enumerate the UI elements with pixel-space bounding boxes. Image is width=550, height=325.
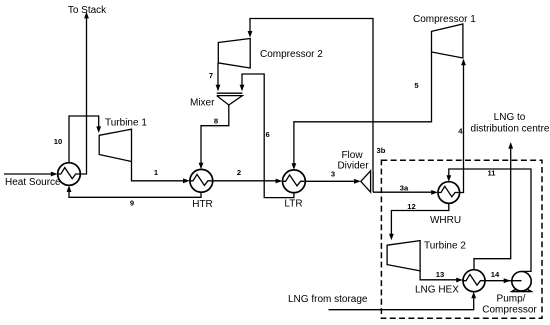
- heat exchanger LNG HEX: [463, 270, 485, 292]
- svg-text:4: 4: [458, 127, 463, 136]
- turbine T2: [387, 241, 420, 271]
- svg-text:11: 11: [487, 169, 496, 178]
- svg-text:LNG from storage: LNG from storage: [288, 294, 368, 305]
- wire 3a: divider to WHRU: [373, 190, 438, 195]
- wire 1: turbine 1 to HTR: [132, 162, 190, 184]
- svg-text:1: 1: [154, 168, 159, 177]
- svg-text:3: 3: [331, 170, 335, 179]
- wire 3b: divider to compressor 2: [248, 19, 373, 171]
- wire: LNG from storage: [329, 292, 477, 310]
- svg-text:Heat Source: Heat Source: [5, 177, 61, 188]
- compressor C1: [432, 24, 463, 58]
- svg-text:14: 14: [491, 270, 500, 279]
- svg-text:12: 12: [407, 202, 415, 211]
- wire 2: HTR to LTR: [213, 179, 283, 184]
- svg-text:Compressor 2: Compressor 2: [260, 49, 323, 60]
- wire: LNG to distribution centre: [474, 142, 513, 270]
- pump / compressor: [512, 272, 532, 292]
- svg-text:distribution centre: distribution centre: [471, 124, 550, 135]
- heat exchanger: heat source HX: [58, 163, 81, 186]
- turbine T1: [99, 129, 131, 161]
- svg-text:7: 7: [209, 71, 213, 80]
- wire 9: HTR to heat source HX: [67, 185, 201, 197]
- wire 4: WHRU to compressor 1: [460, 59, 466, 193]
- wire 12: WHRU to turbine 2: [389, 203, 449, 240]
- wire 13: turbine 2 to LNG HEX: [420, 271, 463, 283]
- svg-text:2: 2: [237, 168, 241, 177]
- compressor C2: [218, 39, 250, 69]
- svg-text:Compressor 1: Compressor 1: [413, 14, 476, 25]
- svg-text:WHRU: WHRU: [430, 215, 461, 226]
- flow divider: [361, 171, 373, 192]
- svg-text:6: 6: [266, 130, 270, 139]
- wire: to stack: [80, 12, 89, 174]
- svg-text:3a: 3a: [400, 184, 409, 193]
- svg-text:Turbine 1: Turbine 1: [105, 118, 147, 129]
- wire 8: mixer to HTR top: [199, 105, 229, 169]
- svg-text:3b: 3b: [377, 146, 386, 155]
- svg-text:13: 13: [436, 270, 444, 279]
- wire: heat source inlet arrow: [4, 172, 58, 177]
- svg-text:Pump/: Pump/: [497, 293, 526, 304]
- svg-text:To Stack: To Stack: [68, 5, 107, 16]
- svg-text:LNG to: LNG to: [494, 112, 526, 123]
- wire 7: compressor 2 to mixer: [216, 63, 221, 91]
- wire 6: LTR bottom to mixer: [240, 74, 294, 198]
- heat exchanger HTR: [190, 169, 213, 192]
- dashed system boundary box: [381, 160, 542, 318]
- svg-text:10: 10: [54, 137, 62, 146]
- heat exchanger WHRU: [438, 182, 460, 204]
- svg-text:LTR: LTR: [284, 199, 302, 210]
- svg-text:5: 5: [414, 81, 419, 90]
- heat exchanger LTR: [282, 170, 305, 193]
- svg-text:Mixer: Mixer: [190, 98, 215, 109]
- svg-text:HTR: HTR: [192, 199, 213, 210]
- svg-text:9: 9: [130, 199, 134, 208]
- wire 5: compressor 1 to LTR top: [292, 52, 432, 170]
- svg-text:Divider: Divider: [337, 161, 369, 172]
- wire 10: HX to turbine 1: [69, 116, 101, 163]
- svg-text:Turbine 2: Turbine 2: [424, 241, 466, 252]
- wire 14: LNG HEX to pump: [485, 278, 522, 283]
- svg-text:8: 8: [214, 117, 218, 126]
- wire 11: pump to WHRU: [446, 169, 531, 271]
- svg-text:Compressor: Compressor: [482, 304, 537, 315]
- svg-text:LNG HEX: LNG HEX: [415, 285, 459, 296]
- svg-text:Flow: Flow: [341, 150, 363, 161]
- wire 3: LTR to flow divider: [305, 179, 360, 184]
- mixer: [217, 93, 243, 106]
